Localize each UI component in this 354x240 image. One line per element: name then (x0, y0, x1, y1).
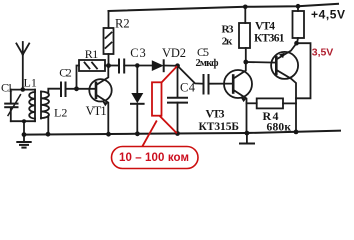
svg-text:L1: L1 (24, 75, 37, 89)
svg-text:R2: R2 (115, 17, 130, 31)
svg-text:2к: 2к (222, 35, 233, 47)
svg-text:10 – 100 ком: 10 – 100 ком (119, 152, 189, 164)
svg-text:КТ315Б: КТ315Б (199, 121, 240, 133)
svg-text:R1: R1 (85, 47, 99, 61)
svg-text:2мкф: 2мкф (196, 58, 219, 69)
svg-text:680к: 680к (267, 122, 292, 134)
svg-text:VD2: VD2 (162, 46, 186, 60)
svg-text:КТ361: КТ361 (254, 33, 285, 45)
svg-text:C2: C2 (59, 65, 72, 79)
svg-text:VT4: VT4 (255, 21, 275, 33)
svg-text:C5: C5 (197, 45, 209, 59)
svg-text:3,5V: 3,5V (312, 46, 334, 58)
svg-text:L2: L2 (54, 106, 67, 120)
svg-text:+4,5V: +4,5V (311, 8, 345, 22)
svg-text:C3: C3 (130, 46, 146, 60)
svg-text:C1: C1 (1, 81, 13, 95)
svg-text:R3: R3 (222, 23, 235, 35)
svg-text:C4: C4 (180, 80, 196, 94)
svg-text:VT1: VT1 (86, 104, 107, 118)
svg-text:VT3: VT3 (206, 109, 225, 121)
